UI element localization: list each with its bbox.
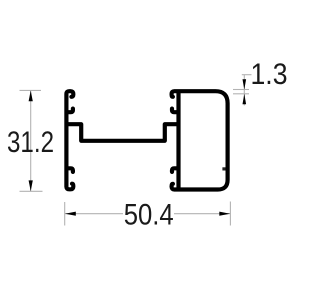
inner wall nub top: [224, 94, 227, 97]
svg-text:50.4: 50.4: [124, 198, 174, 231]
dimension 50.4: [65, 202, 231, 226]
vertical dimension line: [30, 90, 32, 191]
upper extension line: [233, 89, 249, 91]
arrow up: [29, 91, 33, 102]
lower extension line: [233, 93, 249, 95]
svg-text:1.3: 1.3: [251, 58, 288, 91]
left upper small hook: [68, 109, 73, 113]
leader to text: [242, 74, 252, 76]
dimension line right segment: [174, 213, 230, 215]
arrow down: [29, 180, 33, 191]
left extension line: [64, 202, 66, 226]
central web channel: [66, 124, 178, 141]
svg-text:31.2: 31.2: [7, 126, 54, 159]
dimension 31.2: [20, 90, 43, 191]
dimension 1.3: [233, 75, 252, 106]
arrow right: [219, 212, 230, 216]
bottom extension tick: [20, 190, 43, 192]
inner wall nub bottom: [222, 167, 226, 170]
right box outline with hooks: [172, 91, 228, 189]
dimension line left segment: [65, 213, 123, 215]
left lower small hook: [68, 168, 73, 172]
arrow left: [65, 212, 76, 216]
left mullion bar with top and bottom hooks: [66, 91, 73, 189]
right bar / box left wall: [176, 91, 180, 189]
right upper small hook: [172, 109, 177, 113]
right lower small hook: [172, 168, 177, 172]
arrow down to wall: [243, 79, 247, 89]
top extension tick: [20, 89, 42, 91]
right extension line: [229, 202, 231, 226]
arrow up to wall: [243, 94, 247, 104]
vertical dimension line: [243, 75, 245, 106]
